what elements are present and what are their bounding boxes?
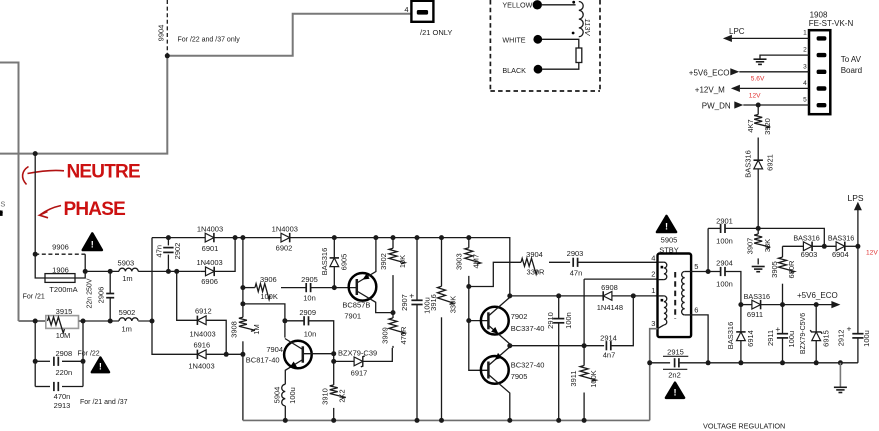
svg-text:6916: 6916 [193,341,210,350]
svg-text:7902: 7902 [511,312,528,321]
svg-text:YELLOW: YELLOW [502,1,532,10]
wire phase input top-left [0,63,19,322]
wire emitter row 7902/7905 [510,345,604,347]
svg-text:2912: 2912 [837,330,846,347]
svg-text:BAS316: BAS316 [828,234,854,243]
rail pin2 to emitters x584 [583,279,585,366]
svg-text:BAS316: BAS316 [744,292,770,301]
svg-text:BC857B: BC857B [342,300,370,309]
svg-text:100n: 100n [564,312,573,329]
svg-text:/21 ONLY: /21 ONLY [420,28,452,37]
svg-text:FE-ST-VK-N: FE-ST-VK-N [809,19,854,28]
rail x242.9 main negative rail [242,238,244,318]
connector 1908 FE-ST-VK-N box [809,30,830,114]
svg-text:3908: 3908 [230,321,239,338]
svg-text:1m: 1m [122,274,132,283]
svg-text:BLACK: BLACK [502,66,526,75]
wire yellow to coil [542,4,576,6]
svg-text:1N4003: 1N4003 [197,225,223,234]
svg-text:2910: 2910 [546,312,555,329]
svg-text:330K: 330K [448,296,457,314]
svg-text:3903: 3903 [455,253,464,270]
svg-text:BZX79-C5V6: BZX79-C5V6 [800,313,807,354]
svg-text:1N4003: 1N4003 [196,258,222,267]
svg-text:2907: 2907 [400,294,409,311]
svg-text:5.6V: 5.6V [751,75,765,82]
warning triangle For /22 [92,358,109,373]
svg-text:+: + [847,324,852,334]
node 6916 row junctions [224,352,229,357]
svg-text:100K: 100K [260,292,278,301]
svg-text:!: ! [91,240,94,250]
svg-text:3909: 3909 [381,327,390,344]
svg-text:!: ! [99,362,102,372]
svg-text:3: 3 [803,63,807,70]
wire pin2 to ground [760,55,809,59]
svg-text:6917: 6917 [351,368,368,377]
warning triangle near fuse [83,234,102,251]
svg-text:4n7: 4n7 [603,351,616,360]
capacitor 2903 47n [572,258,574,267]
node 6903/6904 junctions [822,244,827,249]
resistor 3911 100K [580,366,596,382]
svg-text:6908: 6908 [601,283,618,292]
resistor 3902 10K [392,238,394,249]
capacitor ladder verticals for 2908/2913 [34,321,36,387]
zener 6915 BZX79-C5V6 [815,305,817,332]
wire +5V6_ECO row [738,302,743,307]
svg-text:2911: 2911 [766,330,775,346]
capacitor 2901 100n [708,227,721,229]
diode 6914 BAS316 [740,305,742,332]
capacitor 2912 100u electrolytic [857,246,859,333]
svg-text:1N4003: 1N4003 [272,225,298,234]
wire 3915 to 5902 [79,320,120,322]
fuse 1906 T200mA [45,274,75,283]
resistor 3910 2K2 [330,385,346,398]
svg-text:+5V6_ECO: +5V6_ECO [797,291,838,300]
resistor 3903 4M7 [468,238,470,248]
svg-text:100u: 100u [862,330,871,347]
diode 6911 BAS316 [752,300,761,309]
resistor 3908 1M [239,317,255,331]
diode 6901 1N4003 [205,233,214,242]
svg-text:BZX79-C39: BZX79-C39 [338,348,377,357]
svg-text:1N4003: 1N4003 [189,330,215,339]
wire 7902 base [469,320,489,322]
svg-text:!: ! [665,222,668,232]
svg-text:4: 4 [803,80,807,87]
svg-text:6901: 6901 [202,244,219,253]
svg-text:3915: 3915 [56,307,73,316]
svg-text:For /21: For /21 [23,293,45,300]
svg-text:BAS316: BAS316 [744,150,753,178]
capacitor 2910 100n [558,296,560,319]
svg-text:2904: 2904 [716,258,733,267]
svg-text:10n: 10n [304,330,317,339]
svg-text:5903: 5903 [118,259,135,268]
capacitor 2915 2n2 bridging [650,362,670,364]
svg-text:22n 250V: 22n 250V [87,278,94,308]
signal +5V6_ECO with arrow [730,68,739,75]
node 7904 base [331,351,336,356]
svg-text:1N4003: 1N4003 [188,362,214,371]
svg-text:+: + [775,324,780,334]
svg-text:2915: 2915 [667,348,684,357]
svg-text:9904: 9904 [157,25,166,42]
ground secondary [838,360,843,365]
svg-text:6914: 6914 [746,330,755,347]
svg-text:47n: 47n [570,269,583,278]
svg-text:6903: 6903 [801,250,818,259]
svg-text:+: + [409,291,414,301]
svg-text:3920: 3920 [763,118,772,135]
svg-text:2902: 2902 [173,243,182,260]
svg-text:PW_DN: PW_DN [702,102,731,111]
wire pin6 down [691,315,708,363]
jumper 9904 dashed [166,0,168,56]
LPS arrow [857,210,859,247]
svg-text:3910: 3910 [321,388,330,405]
svg-text:4: 4 [404,5,408,14]
svg-text:470R: 470R [399,326,408,345]
svg-text:220n: 220n [55,368,72,377]
svg-text:9906: 9906 [52,243,69,252]
svg-text:10K: 10K [398,255,407,268]
svg-text:BAS316: BAS316 [320,248,329,276]
svg-text:BC337-40: BC337-40 [511,324,545,333]
node 3907 top [756,226,761,231]
svg-text:3904: 3904 [526,250,543,259]
node 2906 bottom [108,319,113,324]
svg-text:10n: 10n [303,294,316,303]
svg-text:113V: 113V [583,19,592,37]
transformer core dashed [674,272,676,319]
signal +12V_M with arrow [731,85,740,92]
svg-text:2913: 2913 [54,401,71,410]
wire top rail corner to 7902 collector node [507,293,512,298]
svg-text:1906: 1906 [52,265,69,274]
node 2915 left [647,360,652,365]
svg-text:2906: 2906 [96,287,105,304]
capacitor 2905 10n [305,283,307,292]
wire pin2 row [584,278,657,280]
svg-text:Board: Board [841,66,862,75]
capacitor 2908 220n [35,360,50,362]
svg-text:7901: 7901 [344,312,361,321]
diode 6921 BAS316 [754,160,763,169]
diode 6904 BAS316 [836,242,845,251]
ground 3907 [752,266,765,268]
node 2906 top [108,269,113,274]
wire neutre vertical to fuse [35,154,45,278]
svg-text:5902: 5902 [119,308,136,317]
svg-text:NEUTRE: NEUTRE [67,162,140,183]
node PW_DN junction [756,103,761,108]
wire white to coil [542,39,579,48]
rail x708 up to 2901 [707,228,709,271]
resistor 3916 330K [441,238,443,287]
inductor 5903 1m [119,268,138,271]
svg-text:100u: 100u [288,387,297,404]
svg-text:6902: 6902 [276,243,293,252]
svg-text:680R: 680R [787,260,796,279]
svg-text:BC817-40: BC817-40 [246,355,280,364]
transistor 7902 BC337-40 npn [481,307,509,335]
svg-text:3906: 3906 [260,275,277,284]
node pin1 junction [631,293,636,298]
svg-text:5: 5 [694,262,698,271]
svg-text:S: S [0,200,5,209]
svg-text:12V: 12V [749,93,761,100]
svg-text:PHASE: PHASE [64,199,126,220]
degauss coil 113V [579,2,583,37]
svg-text:1M: 1M [252,324,261,334]
svg-text:100n: 100n [716,237,733,246]
rail 7904 base to 3910 [333,354,335,385]
resistor 3909 470R [389,318,405,334]
resistor 3905 680R [782,246,784,257]
wire 6908 row [510,295,603,297]
wire phase to 3915 row [19,320,46,322]
svg-text:6905: 6905 [340,254,349,271]
svg-text:2K2: 2K2 [337,389,346,402]
svg-text:1: 1 [803,30,807,37]
svg-text:2n2: 2n2 [668,371,681,380]
svg-text:4M7: 4M7 [472,254,481,269]
svg-text:6912: 6912 [195,307,212,316]
svg-text:VOLTAGE REGULATION: VOLTAGE REGULATION [703,421,785,430]
elbow wire to 7904 collector [243,304,285,338]
svg-text:3905: 3905 [770,261,779,278]
svg-text:7905: 7905 [511,372,528,381]
diode 6912 1N4003 with link [177,271,198,320]
node 2909 left [282,318,287,323]
transformer primary winding top [658,261,664,263]
transistor 7901 BC857B pnp [349,273,377,301]
diode 6905 BAS316 [333,238,335,258]
svg-text:2: 2 [803,47,807,54]
svg-text:4: 4 [651,254,655,263]
svg-text:100K: 100K [589,370,598,388]
capacitor 2911 100u electrolytic [782,305,784,334]
svg-text:2914: 2914 [600,333,617,342]
svg-text:330R: 330R [527,268,546,277]
svg-text:3: 3 [651,319,655,328]
svg-text:12V: 12V [866,250,878,257]
signal LPC with arrow [723,35,732,42]
node 3903 bottom [466,284,471,289]
svg-text:5905: 5905 [661,235,678,244]
svg-text:BC327-40: BC327-40 [511,361,545,370]
resistor 3904 330R [521,258,537,274]
resistor 3920 4K7 [757,105,759,115]
svg-text:For /22: For /22 [78,351,100,358]
svg-text:4K7: 4K7 [746,119,755,132]
node 7902 base tee [466,318,471,323]
svg-text:6915: 6915 [821,330,830,347]
svg-text:BAS316: BAS316 [793,234,819,243]
svg-text:For /22 and /37 only: For /22 and /37 only [178,37,241,44]
svg-text:+12V_M: +12V_M [695,85,725,94]
svg-text:6911: 6911 [747,310,763,319]
svg-text:6921: 6921 [765,154,774,171]
svg-text:BAS316: BAS316 [726,322,735,350]
svg-text:2: 2 [651,270,655,279]
diode 6906 1N4003 [201,270,206,272]
wire neutre horizontal and link to top connector [0,14,411,154]
node 5902 to return rail [150,319,155,324]
svg-text:!: ! [673,387,676,397]
node neutre junction [33,151,38,156]
capacitor 2907 100u electrolytic [416,238,418,301]
svg-text:100n: 100n [716,280,733,289]
warning triangle STBY [657,216,676,232]
transistor 7904 BC817-40 npn [284,341,312,369]
capacitor 2902 47n [167,238,169,246]
transformer secondary winding [685,271,691,273]
wire black to resistor [542,63,579,70]
node 7901 collector to 3902/3909 [391,310,396,315]
warning triangle 2915 [666,383,684,398]
svg-text:1: 1 [651,286,655,295]
svg-text:6: 6 [694,306,698,315]
node 3906 junction [240,285,245,290]
diode 6903 BAS316 [803,242,812,251]
svg-text:LPC: LPC [729,27,745,36]
node 2910 top [556,293,561,298]
svg-text:For /21 and /37: For /21 and /37 [80,399,128,406]
resistor 3906 100K [243,287,255,289]
ground at pin 2 [754,58,767,60]
svg-text:T200mA: T200mA [49,285,77,294]
svg-text:To AV: To AV [841,55,862,64]
diode 6916 1N4003 [197,350,206,359]
svg-text:2905: 2905 [301,275,318,284]
degaussing box dashed outline [489,0,491,91]
jumper 9906 dashed link [35,253,85,255]
svg-text:3907: 3907 [745,238,754,255]
wire left return rail x152 [152,238,197,355]
svg-text:2909: 2909 [299,308,316,317]
svg-text:47n: 47n [154,245,163,258]
transistor 7905 BC327-40 pnp [481,356,509,384]
capacitor 2904 100n [720,267,722,276]
svg-text:3911: 3911 [569,370,578,386]
zener 6917 BZX79-C39 [334,360,354,362]
wire 12V diode row [783,245,804,247]
svg-text:2901: 2901 [716,216,733,225]
resistor 3907 33K [757,228,759,234]
svg-text:2903: 2903 [567,249,584,258]
svg-text:LPS: LPS [848,193,864,203]
svg-text:5904: 5904 [272,387,281,404]
node top rail junctions [166,235,171,240]
svg-text:+5V6_ECO: +5V6_ECO [689,69,730,78]
degauss resistor (PTC) [576,48,582,63]
svg-text:3902: 3902 [379,253,388,270]
wire pin5 row [691,271,721,273]
svg-text:33K: 33K [763,239,772,252]
transformer 5905 box [658,254,692,338]
svg-text:3916: 3916 [429,294,438,311]
transformer primary winding bottom [658,295,664,297]
svg-text:100u: 100u [787,331,796,348]
signal PW_DN with arrow [734,101,743,108]
wire fuse to 5903 [85,270,119,272]
svg-text:2908: 2908 [55,349,72,358]
svg-text:1m: 1m [121,325,131,334]
inductor 5904 100u [282,384,286,406]
svg-text:1N4148: 1N4148 [597,303,623,312]
svg-text:5: 5 [803,97,807,104]
svg-text:6906: 6906 [201,277,218,286]
diode 6908 1N4148 [603,292,612,301]
svg-text:7904: 7904 [266,345,283,354]
svg-text:WHITE: WHITE [502,35,525,44]
svg-text:10M: 10M [56,331,71,340]
inductor 5902 1m [119,318,138,321]
capacitor 2914 4n7 [605,341,607,350]
svg-text:6904: 6904 [832,250,849,259]
capacitor 2909 10n [285,320,304,322]
wire elbow to 3904 [469,262,521,286]
wire secondary rail [708,362,858,364]
resistor 3915 10M safety [46,316,79,329]
connector /21 ONLY box [411,1,433,22]
wire pin3 to bottom rail [650,329,658,421]
capacitor 2906 22n 250V [109,271,111,293]
capacitor 2913 470n [35,386,50,388]
wire top rail [152,237,205,239]
wire bottom rail [243,419,650,421]
diode 6902 1N4003 [281,233,290,242]
